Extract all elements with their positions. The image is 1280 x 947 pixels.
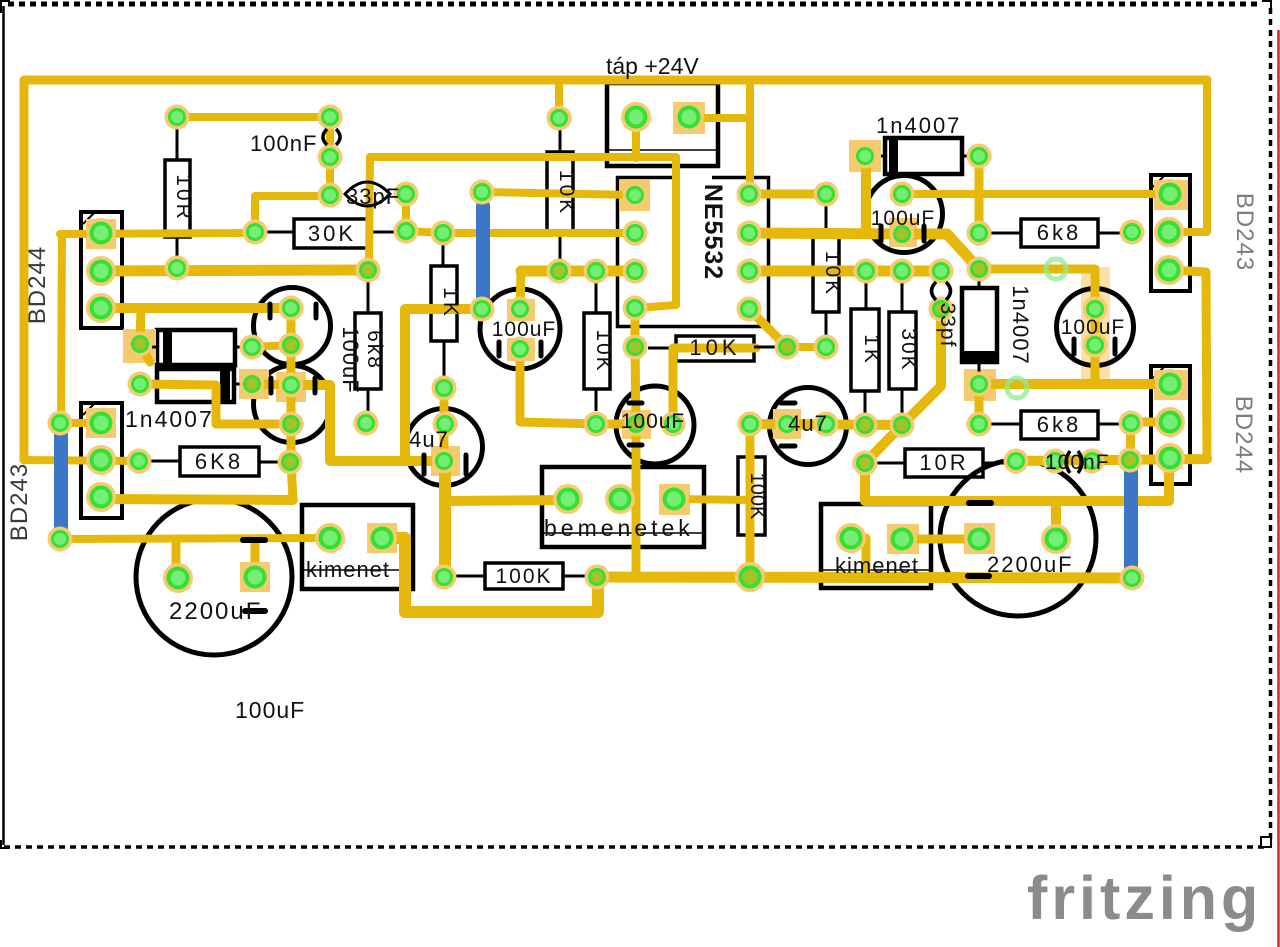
wire 6k8 to Q4 pin2 xyxy=(1132,418,1170,427)
svg-text:BD243: BD243 xyxy=(1231,193,1258,271)
capacitor C6 4u7 circle xyxy=(406,409,483,486)
node pad bemenetek pin3 xyxy=(659,484,689,514)
node pad R13 top xyxy=(584,259,609,284)
node square pad C3 minus xyxy=(507,338,535,361)
node pad U1 pin6 xyxy=(737,259,762,284)
node pad D2 left xyxy=(128,372,153,397)
node square pad kimenet2 pin2 xyxy=(887,524,919,554)
node square pad Q4 pin1 xyxy=(1154,370,1188,400)
wire lead R10 bottom xyxy=(825,312,828,336)
node square pad D1 in xyxy=(123,329,156,363)
svg-text:BD243: BD243 xyxy=(6,463,33,541)
node pad Q1 pin2 xyxy=(86,256,116,286)
wire x406 link xyxy=(402,194,410,231)
wire y234 row right xyxy=(749,233,979,269)
svg-text:1K: 1K xyxy=(439,287,462,319)
svg-text:10K: 10K xyxy=(555,170,578,216)
wire bemenetek pin1 link xyxy=(445,500,568,501)
node pad U1 pin1 xyxy=(623,183,648,208)
wire y308 row xyxy=(101,303,291,313)
wire y460 row xyxy=(1016,459,1207,461)
wire lead R15 left xyxy=(991,232,1021,235)
wire lead D1 left xyxy=(152,346,157,349)
wire lead R6 right xyxy=(259,461,279,464)
svg-text:kimenet: kimenet xyxy=(306,557,390,582)
wire y117 link xyxy=(177,113,330,121)
diode D3 1n4007 body vertical xyxy=(962,288,997,362)
resistor R15 6k8 body xyxy=(1021,219,1098,247)
resistor R5 6k8 body xyxy=(355,313,381,389)
node pad kimenet pin1 xyxy=(315,523,345,553)
connector bemenetek body xyxy=(542,467,704,547)
svg-text:100uF: 100uF xyxy=(492,318,557,341)
node pad R6 left xyxy=(127,449,152,474)
wire y196 xyxy=(255,192,330,200)
wire x445 drop to 100K xyxy=(439,461,451,577)
wire y193 to U1 pin1 xyxy=(482,192,635,195)
node square pad U1 pin1 xyxy=(619,180,650,211)
node pad C4 minus xyxy=(890,222,915,247)
C3 polarity ticks xyxy=(497,342,502,356)
wire lead D2 left xyxy=(152,383,157,386)
node pad Q3 pin2 xyxy=(1154,217,1184,247)
wire y233 to U1 pin2 xyxy=(443,229,635,237)
wire lead R16 left xyxy=(991,423,1021,426)
svg-text:1n4007: 1n4007 xyxy=(876,113,961,138)
svg-text:2200uF: 2200uF xyxy=(987,552,1074,577)
node pad U1 pin2 xyxy=(623,221,648,246)
node pad D2 right xyxy=(240,372,265,397)
wire lead R10 top xyxy=(825,206,828,236)
wire C10 up and over R9 xyxy=(673,348,756,424)
board corner notch bottom-left xyxy=(1,840,9,848)
node pad 33pF bot xyxy=(394,219,419,244)
node pad W2 bottom xyxy=(48,527,73,552)
wire lead D3 top xyxy=(978,278,981,288)
wire C3 bottom route xyxy=(520,349,636,424)
wire x979 upper link xyxy=(975,156,984,233)
wire x62 drop xyxy=(61,234,62,423)
wire x636 column xyxy=(635,308,636,577)
node pad C6 minus xyxy=(432,449,457,474)
node pad J1 pin1 xyxy=(621,102,651,132)
resistor R12 30K body xyxy=(889,312,916,389)
svg-text:30K: 30K xyxy=(897,328,920,371)
svg-text:fritzing: fritzing xyxy=(1027,864,1262,932)
wire D2 route xyxy=(140,384,216,424)
node pad Q3 pin1 xyxy=(1155,179,1185,209)
C4 polarity ticks xyxy=(879,226,884,241)
red board edge line right xyxy=(1277,30,1280,947)
capacitor C4 100uF circle xyxy=(866,176,943,253)
wire C2 to staircase xyxy=(291,385,444,461)
wire lead R5 top xyxy=(367,280,370,313)
node pad R7 right xyxy=(585,565,610,590)
svg-text:100uF: 100uF xyxy=(338,326,363,393)
wire lead R4 bottom xyxy=(443,341,446,378)
node pad D1 right xyxy=(240,335,265,360)
wire x370 drop xyxy=(369,157,370,267)
op-amp U1 NE5532 body xyxy=(618,178,769,327)
board corner notch top-left xyxy=(1,1,10,13)
node pad W1 top xyxy=(470,180,495,205)
node pad kimenet2 pin1 xyxy=(836,523,866,553)
C10 polarity ticks xyxy=(629,401,642,406)
node square pad C3 plus xyxy=(507,299,535,321)
node square pad kimenet pin2 xyxy=(367,523,397,553)
wire y347 link xyxy=(787,343,826,351)
capacitor 100nF right parens symbol xyxy=(1066,451,1070,473)
transistor Q2 BD243 bottom-left body xyxy=(81,403,122,518)
svg-text:NE5532: NE5532 xyxy=(699,184,727,280)
node pad U1 pin7 xyxy=(737,221,762,246)
node pad C9 minus xyxy=(964,524,994,554)
resistor R14 10R body xyxy=(905,449,983,477)
board outline solid left edge xyxy=(2,6,5,845)
wire y423 link xyxy=(61,419,101,427)
wire x330 upper xyxy=(326,117,334,195)
node pad kimenet2 pin2 xyxy=(887,524,917,554)
node pad R10 bottom xyxy=(814,335,839,360)
svg-text:100uF: 100uF xyxy=(1061,316,1126,339)
wire y158 run xyxy=(370,153,676,161)
node pad C10 plus xyxy=(661,412,686,437)
svg-text:4u7: 4u7 xyxy=(409,427,449,452)
node pad C100nF top xyxy=(318,105,343,130)
node pad Q3 pin3 xyxy=(1154,255,1184,285)
wire lead D4 right xyxy=(962,155,967,158)
pale highlight band C5 column xyxy=(1081,267,1110,386)
node pad R15 right xyxy=(1120,220,1145,245)
wire lead D2 right xyxy=(234,383,240,386)
node pad C100nF mid xyxy=(318,145,343,170)
wire U1 pin5 diagonal xyxy=(749,309,787,347)
wire lead R9 right xyxy=(754,346,777,349)
wire lead R7 left xyxy=(456,575,485,578)
node square pad D2 out xyxy=(239,369,269,399)
wire lead R6 left xyxy=(151,460,180,463)
node pad C2 minus xyxy=(279,412,304,437)
wire y271 row right xyxy=(749,266,941,277)
node pad Q1 pin1 xyxy=(86,218,116,248)
wire rail stub to U1 pin8 xyxy=(746,84,754,194)
wire J1 pin2 to x750 xyxy=(689,114,750,122)
resistor R3 10K body xyxy=(547,152,573,234)
connector kimenet left body xyxy=(302,505,413,589)
wire x291 column xyxy=(291,308,293,500)
wire bemenetek pin3 link xyxy=(674,499,751,500)
node pad C8 minus xyxy=(240,562,270,592)
node pad D3 top xyxy=(967,257,992,282)
wire x750 drop thru 100K xyxy=(746,424,755,577)
node square pad C4 minus xyxy=(889,218,917,247)
node pad U1 pin8 xyxy=(737,182,762,207)
node pad R3 top xyxy=(547,106,572,131)
wire lead D3 bottom xyxy=(978,362,981,376)
wire x866 drop xyxy=(861,156,871,234)
node pad Q2 pin2 xyxy=(86,445,116,475)
wire rail right drop to Q3 pin2 xyxy=(1171,80,1207,232)
node pad R1/top xyxy=(165,105,190,130)
wire y194 long run xyxy=(902,190,1170,198)
node pad W1 bottom xyxy=(470,297,495,322)
wire C8 left stub xyxy=(172,539,181,577)
svg-text:10K: 10K xyxy=(689,335,740,360)
node pad C2 plus xyxy=(279,373,304,398)
wire U1 pin8 to 10K xyxy=(749,190,826,199)
wire lead R14 right xyxy=(983,462,1005,465)
resistor R16 6k8 body xyxy=(1021,411,1098,439)
svg-text:bemenetek: bemenetek xyxy=(544,515,694,541)
node square pad Q1 pin1 xyxy=(86,219,116,249)
wire y233 link xyxy=(406,231,443,233)
wire lead R8 bottom xyxy=(749,535,752,566)
resistor R9 10K body xyxy=(676,336,754,361)
wire lead R13 bottom xyxy=(595,389,598,411)
wire jumper W3 blue xyxy=(1124,470,1138,568)
wire lead R15 right xyxy=(1098,232,1121,235)
wire y501 long run xyxy=(865,459,1169,501)
node pad C10 minus xyxy=(624,412,649,437)
wire kimenet loop xyxy=(382,538,598,612)
wire lead R14 left xyxy=(877,462,905,465)
svg-text:100K: 100K xyxy=(746,473,768,520)
svg-text:BD244: BD244 xyxy=(24,246,51,324)
wire J1 pin1 drop xyxy=(632,117,640,158)
svg-text:táp +24V: táp +24V xyxy=(606,53,699,79)
wire left rail to 6K8 xyxy=(24,460,139,461)
node pad D4 right xyxy=(967,144,992,169)
node square pad C7 minus xyxy=(773,409,801,439)
node square pad Q2 pin1 xyxy=(86,408,116,438)
svg-text:10K: 10K xyxy=(821,251,844,297)
node square pad C9 minus xyxy=(964,523,995,554)
wire x255 drop xyxy=(251,196,259,231)
wire lead R3 top xyxy=(559,130,562,152)
node pad kimenet pin2 xyxy=(367,523,397,553)
resistor R6 6K8 body xyxy=(180,447,259,476)
svg-text:1K: 1K xyxy=(860,334,883,366)
wire kimenet2 stub xyxy=(851,538,866,577)
wire lead R11 bottom xyxy=(864,391,867,414)
wire y539 right xyxy=(902,535,979,544)
transistor Q3 BD243 top-right body xyxy=(1151,175,1190,291)
node pad R16 left xyxy=(967,412,992,437)
diode D1 1n4007 body xyxy=(157,330,235,365)
wire staircase up xyxy=(405,309,482,461)
node pad R2 left xyxy=(243,220,268,245)
node square pad Q3 pin1 xyxy=(1154,180,1188,210)
wire lead R9 right overdraw xyxy=(754,346,777,349)
C5 polarity ticks xyxy=(1072,339,1077,354)
svg-text:6k8: 6k8 xyxy=(1037,220,1081,245)
wire y234 left xyxy=(60,233,255,234)
node pad R8 top xyxy=(738,412,763,437)
svg-text:10R: 10R xyxy=(172,174,195,222)
wire y271 row mid xyxy=(521,266,635,277)
node pad Q4 pin2 xyxy=(1155,407,1185,437)
board outline dashed top edge xyxy=(8,2,1262,7)
wire y539 left xyxy=(60,538,330,539)
node pad R4 bottom xyxy=(432,376,457,401)
node pad C100nF2 left xyxy=(1043,449,1068,474)
transistor Q4 BD244 bottom-right body xyxy=(1151,366,1190,484)
node square pad J1 pin2 xyxy=(673,102,705,134)
wire lead R1 top xyxy=(176,129,179,160)
node pad Q2 pin3 xyxy=(86,482,116,512)
wire lead R12 top xyxy=(901,282,904,312)
wire diagonal stub D1 xyxy=(140,344,150,362)
resistor R10 10K body xyxy=(813,236,839,312)
capacitor C10 100uF circle xyxy=(616,386,694,464)
node pad Q1 pin3 xyxy=(86,293,116,323)
resistor R7 100K body xyxy=(485,563,563,589)
node pad C7 plus xyxy=(775,412,800,437)
node pad R9 right xyxy=(775,335,800,360)
node pad W3 bottom xyxy=(1120,566,1145,591)
node pad C1 minus xyxy=(279,333,304,358)
svg-text:6k8: 6k8 xyxy=(363,330,386,370)
wire y500 left xyxy=(101,499,293,500)
node pad ghost via 2 xyxy=(1007,378,1027,398)
svg-text:1n4007: 1n4007 xyxy=(125,406,214,432)
wire lead R2 right xyxy=(371,231,396,234)
resistor R13 10K body xyxy=(584,313,610,389)
resistor R1 10R body xyxy=(165,160,190,237)
wire x444 link xyxy=(440,388,449,461)
node pad bemenetek pin2 xyxy=(605,484,635,514)
wire y384 row xyxy=(979,379,1169,389)
wire D2 to C2 xyxy=(252,384,291,385)
node pad 33pf bot xyxy=(929,297,954,322)
node pad 33pf top xyxy=(929,259,954,284)
C8 polarity ticks xyxy=(243,537,265,543)
node pad C100nF bot xyxy=(318,183,343,208)
capacitor C9 2200uF circle xyxy=(940,460,1096,616)
svg-text:BD244: BD244 xyxy=(1230,396,1257,474)
svg-text:30K: 30K xyxy=(308,221,356,246)
node pad D3 bottom xyxy=(967,372,992,397)
capacitor 33pf right parens symbol rotated xyxy=(932,282,937,300)
node pad C8 plus xyxy=(163,563,193,593)
node square pad C2 plus xyxy=(276,372,306,402)
C7 polarity ticks xyxy=(781,401,795,406)
wire lead D1 right xyxy=(235,346,240,349)
wire lead R5 bottom xyxy=(367,389,370,413)
wire 33pf diagonal route xyxy=(865,309,941,463)
node square pad C10 minus xyxy=(622,410,651,439)
node pad R1 bottom xyxy=(165,256,190,281)
wire lead D4 left xyxy=(881,155,885,158)
wire jumper W1 blue xyxy=(476,206,490,299)
node pad R5 top xyxy=(356,258,381,283)
board corner notch bottom-right xyxy=(1261,837,1271,847)
node pad W3 top xyxy=(1118,448,1143,473)
node pad C100nF2 right xyxy=(1080,449,1105,474)
wire lead R2 left xyxy=(266,231,294,234)
node pad D4 left xyxy=(853,144,878,169)
svg-text:100uF: 100uF xyxy=(235,697,305,723)
node pad C1 plus xyxy=(279,296,304,321)
node pad W2 top xyxy=(48,411,73,436)
node pad U1 pin5 xyxy=(737,297,762,322)
resistor R4 1K body xyxy=(431,266,457,341)
wire lead R3 bottom xyxy=(559,234,562,260)
capacitor 100nF top-left parens symbol xyxy=(323,129,327,145)
wire D1 to C1 xyxy=(252,345,291,347)
node pad R11 bottom xyxy=(853,413,878,438)
node pad ghost via 1 xyxy=(1046,259,1066,279)
node pad R4 top xyxy=(431,221,456,246)
wire jumper W2 blue xyxy=(54,431,68,527)
diode D2 1n4007 body xyxy=(157,369,234,402)
svg-text:100K: 100K xyxy=(495,565,552,588)
node pad R10 top xyxy=(814,182,839,207)
node pad D1 left xyxy=(128,332,153,357)
capacitor C7 4u7 circle xyxy=(770,388,847,465)
node pad C7 minus xyxy=(814,412,839,437)
wire lead R9 left xyxy=(648,347,676,350)
svg-text:33pF: 33pF xyxy=(346,184,400,209)
node pad C5 plus xyxy=(1083,297,1108,322)
wire y269 to C5 column xyxy=(979,269,1095,384)
resistor R8 100K body xyxy=(738,457,765,535)
svg-text:6K8: 6K8 xyxy=(195,449,243,474)
wire lead R4 top xyxy=(442,244,445,266)
wire x979 link xyxy=(975,384,984,424)
wire x1131 stub xyxy=(1130,423,1131,460)
wire lead R13 top xyxy=(595,283,598,313)
wire lead R16 right xyxy=(1098,423,1120,426)
svg-text:10R: 10R xyxy=(919,450,968,475)
node pad C3 plus xyxy=(508,297,533,322)
board outline dashed bottom edge xyxy=(4,845,1268,849)
resistor R2 30K body xyxy=(294,219,371,248)
node pad R5 bottom xyxy=(354,411,379,436)
wire lead R11 top xyxy=(865,283,868,309)
node pad R13 bottom xyxy=(584,412,609,437)
wire y424 row right xyxy=(750,424,903,425)
wire x676 into U1 pin4 xyxy=(637,157,676,308)
C6 polarity ticks xyxy=(422,455,427,474)
node square pad D4 anode xyxy=(849,140,881,172)
wire lead R1 bottom xyxy=(176,237,179,256)
node pad C4 plus xyxy=(890,182,915,207)
wire C8 right stub xyxy=(251,539,260,577)
svg-text:100nF: 100nF xyxy=(1045,451,1110,474)
wire y577 long run xyxy=(598,577,1131,578)
capacitor C2 100uF circle xyxy=(254,366,331,443)
node pad Q4 pin1 xyxy=(1155,369,1185,399)
node square pad C6 minus xyxy=(431,446,460,476)
node pad R7 left xyxy=(432,565,457,590)
svg-text:100nF: 100nF xyxy=(250,131,317,156)
node pad U1 pin3 xyxy=(623,259,648,284)
wire rail stub to pad 559,118 xyxy=(555,80,563,118)
wire x1207 lower column xyxy=(1171,270,1207,459)
node square pad D3 out xyxy=(964,369,996,401)
node pad R12 top xyxy=(890,259,915,284)
connector kimenet right body xyxy=(821,504,931,588)
node pad J1 pin2 xyxy=(674,102,704,132)
node pad R14 left xyxy=(853,451,878,476)
node pad R6 right xyxy=(278,450,303,475)
wire C3 top stub xyxy=(520,271,521,309)
node pad R15 left xyxy=(967,221,992,246)
C2 polarity ticks xyxy=(269,378,274,393)
node pad C9 plus xyxy=(1041,524,1071,554)
node square pad bemenetek pin3 xyxy=(659,484,690,515)
